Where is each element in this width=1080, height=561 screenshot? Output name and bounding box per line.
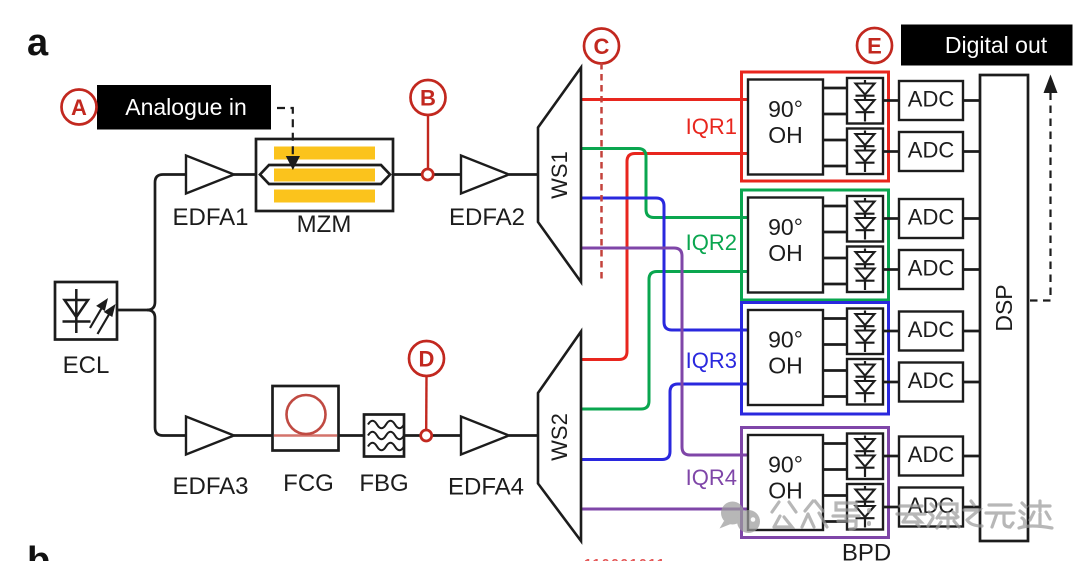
receiver block IQR2 outline [742, 190, 889, 300]
wire BPD to ADC of IQR2 #1 [883, 217, 899, 220]
ADC of IQR1 #2 [899, 132, 963, 171]
90-degree optical hybrid OH of IQR2 [748, 198, 823, 293]
RF arrowhead [286, 156, 300, 170]
wire WS1 ch3 (blue) down to IQR3 input 1 [581, 198, 748, 330]
svg-text:Analogue in: Analogue in [125, 94, 247, 120]
amplifier EDFA2 [461, 156, 509, 194]
wire EDFA2 to WS1 [509, 173, 538, 176]
svg-text:EDFA2: EDFA2 [449, 204, 525, 231]
wire ADC to DSP of IQR1 #1 [963, 99, 980, 102]
hybrid output wires of IQR3 [823, 317, 847, 320]
wire WS2 ch3 (blue) up to IQR3 input 2 [581, 384, 748, 460]
wire BPD to ADC of IQR2 #2 [883, 268, 899, 271]
MZM electrode bars [274, 147, 375, 203]
wire EDFA4 to WS2 [509, 434, 538, 437]
svg-text:EDFA4: EDFA4 [448, 474, 524, 501]
amplifier EDFA3 [186, 417, 234, 455]
receiver block IQR1 outline [742, 72, 889, 181]
laser diode symbol inside ECL [63, 289, 91, 333]
svg-text:90°: 90° [768, 327, 803, 353]
ADC of IQR4 #1 [899, 437, 963, 476]
processor DSP [980, 75, 1028, 541]
FBG grating waves [368, 421, 404, 429]
comb generator FCG box [273, 386, 339, 451]
balanced photodetector BPD of IQR1 #1 [847, 78, 883, 124]
waveshaper WS1 [538, 68, 581, 283]
svg-text:OH: OH [768, 478, 803, 504]
svg-text:OH: OH [768, 240, 803, 266]
MZM waveguide interferometer [260, 165, 390, 184]
svg-text:OH: OH [768, 122, 803, 148]
wire ADC to DSP of IQR2 #1 [963, 217, 980, 220]
wire ADC to DSP of IQR4 #1 [963, 455, 980, 458]
Digital out box [901, 25, 1073, 66]
hybrid output wires of IQR2 [823, 205, 847, 208]
svg-text:ADC: ADC [908, 317, 955, 342]
node B stem and tap [427, 115, 429, 170]
svg-text:b: b [27, 540, 50, 561]
svg-text:IQR4: IQR4 [686, 465, 737, 490]
receiver block IQR4 outline [742, 428, 889, 538]
node D stem and tap [425, 376, 428, 431]
wire BPD to ADC of IQR4 #2 [883, 506, 899, 509]
svg-text:ADC: ADC [908, 442, 955, 467]
wire FCG to FBG [338, 434, 364, 437]
wire WS1 ch4 (purple) down to IQR4 input 1 [581, 248, 748, 455]
svg-text:90°: 90° [768, 96, 803, 122]
wire WS1 ch2 (green) down to IQR2 input 1 [581, 149, 748, 218]
hybrid output wires of IQR1 [823, 87, 847, 90]
svg-text:FBG: FBG [359, 470, 408, 497]
node C marker [584, 29, 619, 64]
Analogue in box [97, 85, 271, 130]
90-degree optical hybrid OH of IQR1 [748, 80, 823, 175]
node E marker [857, 28, 892, 63]
svg-text:90°: 90° [768, 214, 803, 240]
svg-text:Digital out: Digital out [945, 32, 1048, 58]
wire EDFA1 to MZM [234, 173, 260, 176]
balanced photodetector BPD of IQR1 #2 [847, 129, 883, 175]
svg-text:IQR3: IQR3 [686, 348, 737, 373]
ADC of IQR4 #2 [899, 488, 963, 527]
90-degree optical hybrid OH of IQR3 [748, 310, 823, 405]
wire EDFA3 to FCG [234, 434, 273, 437]
wire WS1 ch1 (red) to IQR1 input 1 [581, 98, 748, 101]
svg-text:D: D [419, 347, 435, 372]
svg-text:A: A [71, 95, 87, 120]
svg-text:a: a [27, 22, 49, 64]
waveshaper WS2 [538, 332, 581, 542]
svg-text:FCG: FCG [283, 470, 334, 497]
balanced photodetector BPD of IQR4 #1 [847, 434, 883, 480]
90-degree optical hybrid OH of IQR4 [748, 435, 823, 530]
svg-text:110001011: 110001011 [584, 556, 666, 561]
svg-text:WS1: WS1 [547, 151, 572, 199]
svg-text:E: E [867, 34, 882, 59]
wire ADC to DSP of IQR4 #2 [963, 506, 980, 509]
dashed DSP to Digital out line [1030, 92, 1051, 301]
svg-text:ECL: ECL [63, 352, 110, 379]
wire BPD to ADC of IQR3 #1 [883, 330, 899, 333]
node A marker [62, 90, 97, 125]
modulator MZM box [256, 139, 393, 211]
wire ADC to DSP of IQR3 #2 [963, 381, 980, 384]
svg-text:BPD: BPD [842, 540, 891, 561]
svg-text:WS2: WS2 [547, 413, 572, 461]
svg-text:DSP: DSP [991, 284, 1017, 331]
ADC of IQR3 #2 [899, 363, 963, 402]
balanced photodetector BPD of IQR3 #2 [847, 359, 883, 405]
dashed arrowhead [1044, 75, 1058, 94]
wire FBG to EDFA4 through node D [404, 434, 461, 437]
dashed spectrum cut line C [600, 63, 603, 282]
amplifier EDFA4 [461, 417, 509, 455]
node D marker [409, 341, 444, 376]
svg-text:C: C [594, 34, 610, 59]
svg-text:EDFA3: EDFA3 [172, 473, 248, 500]
ADC of IQR2 #2 [899, 250, 963, 289]
wire ECL output to splitter junction [117, 309, 147, 312]
wire BPD to ADC of IQR3 #2 [883, 381, 899, 384]
wire ADC to DSP of IQR3 #1 [963, 330, 980, 333]
wire BPD to ADC of IQR1 #2 [883, 150, 899, 153]
wire WS2 ch1 (red) up to IQR1 input 2 [581, 154, 748, 360]
dashed RF drive line into MZM [277, 108, 293, 157]
svg-text:ADC: ADC [908, 87, 955, 112]
balanced photodetector BPD of IQR3 #1 [847, 309, 883, 355]
svg-text:IQR1: IQR1 [686, 114, 737, 139]
wire ADC to DSP of IQR2 #2 [963, 268, 980, 271]
svg-text:B: B [420, 86, 436, 111]
svg-text:ADC: ADC [908, 205, 955, 230]
wire BPD to ADC of IQR1 #1 [883, 99, 899, 102]
wire ADC to DSP of IQR1 #2 [963, 150, 980, 153]
svg-text:OH: OH [768, 353, 803, 379]
watermark icon (chat bubbles) [720, 502, 761, 534]
svg-text:ADC: ADC [908, 138, 955, 163]
svg-text:MZM: MZM [297, 211, 352, 238]
wire MZM to EDFA2 through node B [390, 173, 461, 176]
amplifier EDFA1 [186, 156, 234, 194]
balanced photodetector BPD of IQR2 #1 [847, 196, 883, 242]
svg-text:EDFA1: EDFA1 [172, 204, 248, 231]
ECL emission arrows [90, 301, 114, 335]
ADC of IQR2 #1 [899, 199, 963, 238]
ADC of IQR3 #1 [899, 312, 963, 351]
node B marker [411, 80, 446, 115]
wire WS2 ch2 (green) up to IQR2 input 2 [581, 272, 748, 410]
svg-text:ADC: ADC [908, 256, 955, 281]
wire splitter upper branch to EDFA1 [147, 175, 186, 311]
svg-text:ADC: ADC [908, 368, 955, 393]
FCG fibre loop (red circle) [274, 434, 337, 437]
wire splitter lower branch to EDFA3 [147, 310, 186, 436]
balanced photodetector BPD of IQR2 #2 [847, 247, 883, 293]
svg-text:IQR2: IQR2 [686, 230, 737, 255]
watermark text strokes (grey CJK glyph shapes) [772, 501, 1052, 529]
balanced photodetector BPD of IQR4 #2 [847, 484, 883, 530]
fibre Bragg grating FBG box [364, 415, 404, 457]
hybrid output wires of IQR4 [823, 442, 847, 445]
wire BPD to ADC of IQR4 #1 [883, 455, 899, 458]
laser ECL box [55, 282, 117, 340]
svg-text:90°: 90° [768, 452, 803, 478]
ADC of IQR1 #1 [899, 81, 963, 120]
receiver block IQR3 outline [742, 303, 889, 415]
wire WS2 ch4 (purple) to IQR4 input 2 [581, 508, 748, 511]
